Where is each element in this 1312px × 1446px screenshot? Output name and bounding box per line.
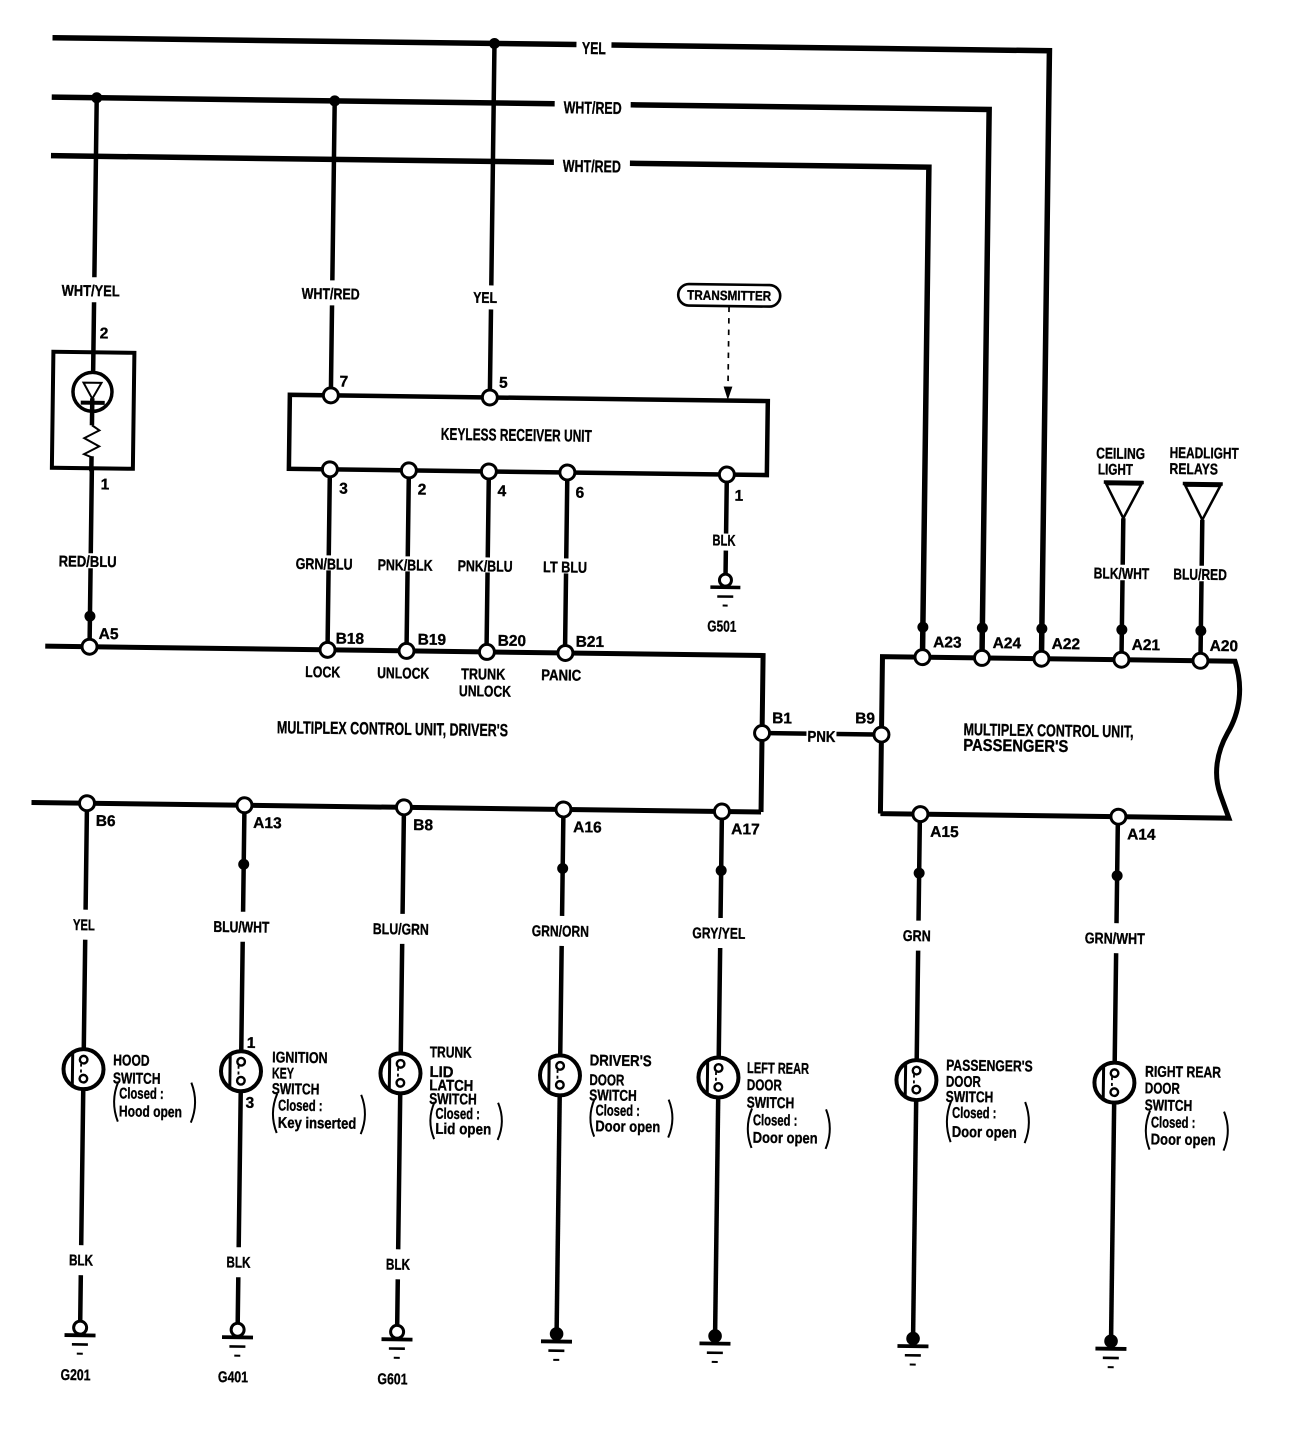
svg-text:Door open: Door open (952, 1124, 1017, 1142)
right rear door switch S7 (1094, 1062, 1135, 1103)
svg-text:G601: G601 (377, 1371, 408, 1388)
wire PNK/BLK pin2 to B19 (407, 470, 409, 644)
svg-text:Door open: Door open (595, 1118, 660, 1136)
svg-text:Hood open: Hood open (119, 1103, 182, 1121)
svg-text:PNK/BLK: PNK/BLK (378, 557, 434, 575)
svg-text:Lid open: Lid open (435, 1121, 491, 1139)
svg-text:BLK: BLK (386, 1256, 411, 1273)
svg-text:LOCK: LOCK (305, 664, 341, 681)
svg-text:DOOR: DOOR (1145, 1080, 1180, 1097)
svg-text:Closed :: Closed : (1151, 1114, 1196, 1132)
svg-text:B6: B6 (96, 813, 116, 830)
svg-text:1: 1 (247, 1035, 256, 1052)
svg-text:BLU/RED: BLU/RED (1173, 566, 1227, 584)
wire BLK switch to ground (397, 1085, 400, 1326)
wire BLU/WHT A13 to switch (241, 813, 244, 1059)
wire resistor to box edge (89, 456, 94, 471)
pin A16 circle (556, 802, 571, 817)
keyless receiver unit box U1 (289, 395, 768, 475)
pin A22 circle (1034, 651, 1049, 666)
ceiling light arrow (off-page triangle) (1104, 480, 1144, 484)
svg-text:Door open: Door open (753, 1130, 818, 1148)
svg-text:WHT/RED: WHT/RED (563, 157, 621, 177)
svg-text:GRN/WHT: GRN/WHT (1085, 930, 1146, 948)
svg-text:B20: B20 (498, 633, 527, 650)
svg-text:G201: G201 (60, 1367, 91, 1384)
svg-text:UNLOCK: UNLOCK (459, 683, 512, 701)
svg-text:PASSENGER'S: PASSENGER'S (963, 736, 1068, 756)
wire BLK pin1 to G501 (726, 475, 727, 574)
pin B6 circle (79, 796, 94, 811)
svg-text:BLK: BLK (226, 1254, 251, 1271)
junction dot on A17 wire (716, 865, 727, 876)
wire BLK switch to ground (238, 1083, 241, 1324)
svg-text:TRUNK: TRUNK (430, 1044, 473, 1062)
svg-text:SWITCH: SWITCH (946, 1089, 994, 1107)
svg-text:RELAYS: RELAYS (1169, 461, 1218, 479)
pin A17 circle (714, 804, 729, 819)
wire GRN/WHT A14 to switch (1115, 824, 1118, 1070)
pin B21 circle (558, 645, 573, 660)
svg-text:A16: A16 (573, 819, 602, 836)
svg-text:Closed :: Closed : (119, 1085, 164, 1103)
pin A21 circle (1114, 652, 1129, 667)
svg-text:6: 6 (575, 485, 584, 502)
svg-text:B9: B9 (855, 710, 875, 727)
svg-text:IGNITION: IGNITION (272, 1049, 328, 1067)
svg-text:A5: A5 (99, 626, 119, 643)
svg-text:Key inserted: Key inserted (278, 1115, 357, 1133)
svg-text:3: 3 (339, 480, 348, 497)
transmitter oval (678, 284, 780, 307)
pin B20 circle (479, 644, 494, 659)
junction on YEL bus at pin-5 drop (489, 38, 500, 49)
svg-text:WHT/RED: WHT/RED (302, 286, 360, 304)
ground below A17 (708, 1329, 722, 1343)
svg-text:BLK: BLK (712, 532, 736, 549)
pin A23 circle (915, 650, 930, 665)
ground G201 (74, 1321, 87, 1334)
wire GRY/YEL A17 to switch (719, 819, 722, 1065)
svg-text:LT BLU: LT BLU (543, 559, 587, 577)
junction WHT/RED bus 1 / security column (91, 92, 102, 103)
keyless pin 4 circle (481, 464, 496, 479)
svg-text:B1: B1 (772, 710, 792, 727)
junction dot above A24 (977, 622, 988, 633)
svg-text:A20: A20 (1210, 638, 1239, 655)
svg-text:Closed :: Closed : (952, 1105, 997, 1123)
svg-text:TRANSMITTER: TRANSMITTER (687, 288, 771, 304)
pin B9 circle (874, 727, 889, 742)
svg-text:TRUNK: TRUNK (461, 666, 506, 684)
svg-text:LIGHT: LIGHT (1098, 461, 1134, 478)
pin A15 circle (913, 807, 928, 822)
passenger's door switch S6 (896, 1060, 937, 1101)
left rear door switch S5 (698, 1057, 739, 1098)
svg-text:YEL: YEL (73, 917, 95, 934)
pin A14 circle (1111, 809, 1126, 824)
junction WHT/RED bus 1 / pin-7 column (329, 95, 340, 106)
wire GRN/BLU pin3 to B18 (328, 469, 330, 643)
svg-text:B21: B21 (576, 634, 605, 651)
svg-text:1: 1 (101, 476, 110, 493)
LED D1 (security indicator) (73, 372, 113, 412)
svg-text:PNK/BLU: PNK/BLU (458, 558, 513, 576)
driver's door switch S4 (540, 1055, 581, 1096)
svg-text:4: 4 (497, 483, 506, 500)
svg-text:DOOR: DOOR (747, 1077, 782, 1094)
pin A5 circle (82, 639, 97, 654)
junction dot above A23 (917, 622, 928, 633)
svg-text:A24: A24 (993, 635, 1022, 652)
wire LT BLU pin6 to B21 (565, 472, 567, 646)
svg-text:B18: B18 (336, 630, 365, 647)
multiplex control unit driver's box (open left) (31, 646, 763, 812)
wire BLU/GRN B8 to switch (401, 815, 404, 1061)
ground G401 (231, 1323, 244, 1336)
svg-text:BLK: BLK (69, 1252, 94, 1269)
junction dot above A22 (1036, 623, 1047, 634)
wire WHT/RED bus 1 (45, 97, 990, 654)
svg-text:PNK: PNK (807, 729, 836, 746)
svg-text:Closed :: Closed : (278, 1097, 323, 1115)
wire BLK/WHT ceiling light to A21 (1122, 518, 1124, 655)
junction dot on A16 wire (557, 863, 568, 874)
svg-text:DRIVER'S: DRIVER'S (590, 1052, 652, 1070)
ground below A16 (550, 1327, 564, 1341)
wire LED cathode to resistor (90, 398, 95, 425)
svg-text:BLU/WHT: BLU/WHT (213, 919, 270, 937)
wire switch to ground (715, 1089, 718, 1330)
svg-text:A13: A13 (253, 815, 282, 832)
ground below A15 (906, 1332, 920, 1346)
svg-text:7: 7 (339, 373, 348, 390)
svg-text:Closed :: Closed : (753, 1112, 798, 1130)
svg-text:BLU/GRN: BLU/GRN (373, 921, 429, 939)
keyless pin 3 circle (322, 462, 337, 477)
svg-text:2: 2 (418, 482, 427, 499)
svg-text:UNLOCK: UNLOCK (377, 665, 430, 683)
pin B19 circle (399, 643, 414, 658)
svg-text:YEL: YEL (473, 290, 497, 307)
svg-text:A15: A15 (930, 824, 959, 841)
junction dot on A13 wire (238, 859, 249, 870)
arrowhead into keyless unit (723, 387, 732, 401)
ground below A14 (1104, 1334, 1118, 1348)
svg-text:G401: G401 (218, 1369, 249, 1386)
wire GRN A15 to switch (917, 822, 920, 1068)
svg-text:SWITCH: SWITCH (272, 1081, 320, 1099)
svg-text:Door open: Door open (1151, 1131, 1216, 1149)
svg-text:LEFT REAR: LEFT REAR (747, 1060, 809, 1078)
pin B18 circle (320, 642, 335, 657)
svg-text:5: 5 (499, 375, 508, 392)
keyless pin 7 circle (323, 388, 338, 403)
wire WHT/RED bus 2 (45, 156, 929, 653)
svg-text:A21: A21 (1132, 637, 1161, 654)
keyless pin 1 circle (719, 467, 734, 482)
svg-text:2: 2 (100, 325, 109, 342)
pin A24 circle (974, 650, 989, 665)
svg-text:YEL: YEL (582, 39, 606, 58)
svg-text:MULTIPLEX CONTROL UNIT, DRIVER: MULTIPLEX CONTROL UNIT, DRIVER'S (277, 717, 508, 740)
svg-text:BLK/WHT: BLK/WHT (1094, 565, 1150, 583)
wire switch to ground (1111, 1095, 1114, 1336)
svg-text:SWITCH: SWITCH (1145, 1097, 1193, 1115)
svg-text:A22: A22 (1052, 636, 1081, 653)
keyless pin 5 circle (482, 390, 497, 405)
wire YEL bus (top feed) (45, 38, 1050, 655)
pin B1 circle (754, 725, 769, 740)
wire switch to ground (557, 1087, 560, 1328)
svg-text:GRY/YEL: GRY/YEL (692, 925, 745, 943)
wire YEL B6 to switch (84, 811, 87, 1057)
wire switch to ground (913, 1092, 916, 1333)
svg-text:KEYLESS RECEIVER UNIT: KEYLESS RECEIVER UNIT (441, 425, 593, 446)
trunk lid latch switch S3 (380, 1053, 421, 1094)
svg-text:PANIC: PANIC (541, 667, 581, 685)
svg-text:GRN/BLU: GRN/BLU (296, 556, 353, 574)
svg-text:B8: B8 (413, 817, 433, 834)
headlight relays arrow (off-page triangle) (1183, 482, 1223, 486)
svg-text:A14: A14 (1127, 826, 1156, 843)
svg-text:Closed :: Closed : (595, 1102, 640, 1120)
wire BLU/RED headlight relays to A20 (1201, 520, 1203, 657)
junction dot on A14 wire (1112, 870, 1123, 881)
svg-text:WHT/RED: WHT/RED (564, 98, 622, 118)
wire BLK switch to ground (80, 1081, 83, 1322)
wire RED/BLU (90, 468, 92, 642)
junction dot on A15 wire (914, 868, 925, 879)
ignition key switch S2 (221, 1051, 262, 1092)
wire WHT/RED to keyless pin 7 (331, 101, 335, 389)
svg-text:3: 3 (245, 1095, 254, 1112)
svg-text:HOOD: HOOD (113, 1052, 150, 1069)
wire GRN/ORN A16 to switch (560, 817, 563, 1063)
ground G501 (719, 574, 731, 586)
svg-text:GRN: GRN (903, 928, 931, 945)
svg-text:WHT/YEL: WHT/YEL (62, 283, 120, 301)
junction dot above A21 (1116, 624, 1127, 635)
wire WHT/YEL security indicator feed (93, 98, 97, 372)
junction dot above A20 (1195, 625, 1206, 636)
keyless pin 6 circle (560, 465, 575, 480)
svg-text:1: 1 (734, 488, 743, 505)
wire PNK/BLU pin4 to B20 (487, 471, 489, 645)
ground G601 (391, 1325, 404, 1338)
svg-text:A17: A17 (731, 821, 760, 838)
svg-text:CEILING: CEILING (1096, 445, 1145, 463)
multiplex control unit passenger's box (torn right edge) (880, 657, 1240, 819)
keyless pin 2 circle (401, 463, 416, 478)
svg-text:B19: B19 (418, 632, 447, 649)
pin B8 circle (396, 800, 411, 815)
svg-text:SWITCH: SWITCH (747, 1095, 795, 1113)
hood switch S1 (63, 1049, 104, 1090)
dashed wire transmitter to receiver (728, 307, 729, 385)
resistor R1 (LED series) (84, 425, 99, 457)
pin A20 circle (1193, 653, 1208, 668)
wire PNK between control units (769, 733, 874, 734)
svg-text:RIGHT REAR: RIGHT REAR (1145, 1064, 1221, 1082)
wire YEL to keyless pin 5 (490, 43, 495, 391)
svg-text:G501: G501 (707, 618, 737, 635)
pin A13 circle (237, 798, 252, 813)
svg-text:GRN/ORN: GRN/ORN (532, 923, 589, 941)
svg-text:RED/BLU: RED/BLU (59, 553, 117, 571)
svg-text:A23: A23 (933, 634, 962, 651)
junction dot above A5 (84, 611, 95, 622)
security indicator box (52, 352, 135, 469)
